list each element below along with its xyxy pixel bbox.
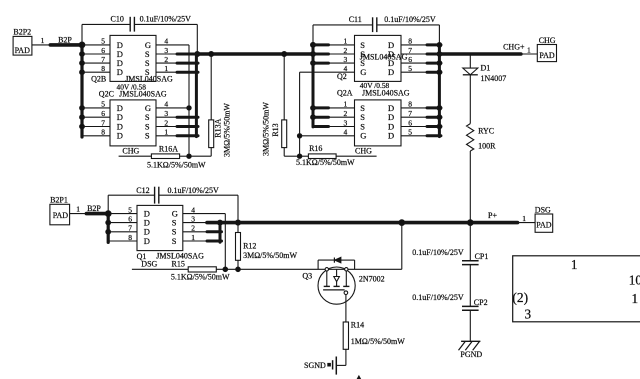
thick S bar y=135.8 xyxy=(177,134,198,137)
wire Q3 to R14 xyxy=(345,295,347,323)
wire CP2 to PGND xyxy=(469,310,471,341)
junction gate net / R16A / R13A xyxy=(187,154,191,158)
svg-text:RYC: RYC xyxy=(478,127,494,136)
svg-text:3: 3 xyxy=(344,118,348,127)
wire Q2C pin 5 stub xyxy=(82,107,110,109)
wire net P+ thick line xyxy=(207,221,518,225)
wire Q3 branch vertical to P+ xyxy=(401,223,403,270)
wire B2P1 pad pin xyxy=(70,213,87,215)
wire D stub right y=117.2 xyxy=(401,116,428,118)
wire net B2P thick feed (bottom) xyxy=(86,212,108,216)
svg-text:6: 6 xyxy=(101,109,105,118)
thick S bar y=63.1 xyxy=(177,62,198,65)
svg-text:8: 8 xyxy=(101,64,105,73)
svg-text:B2P2: B2P2 xyxy=(13,27,31,36)
svg-text:DSG: DSG xyxy=(141,260,157,269)
resistor R13A body xyxy=(210,54,212,120)
svg-text:3MΩ/5%/50mW: 3MΩ/5%/50mW xyxy=(222,103,231,157)
junction S bus row2 xyxy=(311,52,316,57)
wire CHG pad pin xyxy=(521,53,537,55)
svg-text:0.1uF/10%/25V: 0.1uF/10%/25V xyxy=(412,293,464,302)
wire Q2C G pin4 stub xyxy=(156,107,189,109)
junction gate net at Q2C pin4 xyxy=(187,106,191,110)
resistor R12 body xyxy=(237,223,239,233)
svg-text:3: 3 xyxy=(525,307,532,322)
svg-text:7: 7 xyxy=(128,224,132,233)
svg-text:D1: D1 xyxy=(481,64,491,73)
wire CHG net stub (left) xyxy=(119,155,152,157)
wire C12 left rail xyxy=(108,194,154,196)
svg-text:1: 1 xyxy=(41,36,45,45)
svg-text:3: 3 xyxy=(344,55,348,64)
resistor R15 body xyxy=(188,267,216,272)
svg-text:CP2: CP2 xyxy=(474,298,488,307)
wire Q1 gate vertical xyxy=(224,214,226,270)
junction P+ / D1-RYC / CP chain xyxy=(467,220,473,226)
svg-text:1: 1 xyxy=(527,46,531,55)
svg-text:8: 8 xyxy=(128,233,132,242)
svg-text:D: D xyxy=(144,236,150,246)
svg-text:D: D xyxy=(117,67,123,77)
junction B2P bus Q1 pin7 xyxy=(106,229,111,234)
svg-text:5: 5 xyxy=(101,100,105,109)
svg-text:C11: C11 xyxy=(349,15,362,24)
wire B2P pad pin xyxy=(32,44,50,46)
wire Q2C pin 6 stub xyxy=(82,116,110,118)
wire D1 to RYC xyxy=(469,75,471,124)
thick S bar y=126.5 xyxy=(177,125,198,128)
wire Q1 pin 7 stub xyxy=(108,231,137,233)
thick D bus vertical (CHG+ side) xyxy=(438,45,441,137)
wire Q2B pin 8 stub xyxy=(82,71,110,73)
wire C11 drop to D bus (right) xyxy=(438,25,440,45)
wire Q1 pin 5 stub xyxy=(108,213,137,215)
svg-text:5.1KΩ/5%/50mW: 5.1KΩ/5%/50mW xyxy=(171,273,230,282)
svg-text:PAD: PAD xyxy=(15,46,30,55)
junction D bus y=63.1 xyxy=(437,61,442,66)
junction B2P feed (bottom) xyxy=(105,211,111,217)
wire S stub right pair y=63.1 xyxy=(328,62,355,64)
svg-text:5.1KΩ/5%/50mW: 5.1KΩ/5%/50mW xyxy=(296,158,355,167)
thick S bar y=72.2 xyxy=(177,71,198,74)
svg-text:PAD: PAD xyxy=(539,51,554,60)
wire Q2C S stub y=126.5 xyxy=(156,126,178,128)
dual MOSFET Q2A JMSL040SAG (box) xyxy=(355,100,402,146)
wire Q2C S stub y=135.8 xyxy=(156,135,178,137)
svg-text:R13A: R13A xyxy=(213,118,222,137)
wire R16 left lead xyxy=(300,155,309,157)
svg-text:G: G xyxy=(360,131,366,141)
wire Q2B G pin4 stub xyxy=(156,44,189,46)
junction C10/S-bus xyxy=(195,52,200,57)
wire Q2C pin 8 stub xyxy=(82,135,110,137)
svg-text:B2P: B2P xyxy=(87,204,101,213)
svg-text:B2P: B2P xyxy=(58,35,72,44)
Q3 drain stub xyxy=(326,269,328,286)
junction B2P bus Q2C pin6 xyxy=(80,115,85,120)
svg-text:7: 7 xyxy=(101,55,105,64)
svg-text:2: 2 xyxy=(344,109,348,118)
svg-text:1: 1 xyxy=(344,37,348,46)
Q3 source stub xyxy=(345,269,347,286)
wire C10 drop to B2P bus xyxy=(81,24,83,45)
svg-text:10: 10 xyxy=(629,273,640,288)
thick S bus vertical (right pair) xyxy=(312,45,315,127)
wire S stub right pair y=44.9 xyxy=(328,44,355,46)
thick D bar y=44.9 xyxy=(427,43,441,46)
svg-text:2: 2 xyxy=(344,46,348,55)
Q3 protection diode loop xyxy=(317,260,319,269)
wire gate net vertical (Q2B/Q2C gates) xyxy=(188,45,190,156)
svg-text:0.1uF/10%/25V: 0.1uF/10%/25V xyxy=(412,248,464,257)
resistor R13 body xyxy=(283,54,285,120)
svg-text:D: D xyxy=(117,131,123,141)
svg-text:PAD: PAD xyxy=(536,220,551,229)
wire Q2B pin 7 stub xyxy=(82,62,110,64)
thick S bus vertical Q1 xyxy=(219,222,222,242)
wire Q1 pin 8 stub xyxy=(108,240,137,242)
wire net CHG+ thick xyxy=(439,52,521,56)
svg-text:100R: 100R xyxy=(478,142,496,151)
svg-text:PAD: PAD xyxy=(53,211,68,220)
svg-text:Q2C: Q2C xyxy=(99,90,114,99)
svg-text:7: 7 xyxy=(101,118,105,127)
junction R12 / DSG wire xyxy=(236,267,241,272)
svg-text:CHG: CHG xyxy=(539,36,556,45)
svg-text:S: S xyxy=(172,236,177,246)
svg-text:R16A: R16A xyxy=(159,144,178,153)
wire C11 right rail xyxy=(377,24,440,26)
Q3 loop diode (points left) xyxy=(333,258,335,263)
thick S bar right pair y=63.1 xyxy=(313,62,329,65)
svg-text:1: 1 xyxy=(344,100,348,109)
Q3 gate bar xyxy=(323,289,345,291)
svg-text:G: G xyxy=(360,67,366,77)
wire Q1 S stub y=231.8 xyxy=(183,231,208,233)
wire R12 bottom lead xyxy=(237,260,239,269)
thick D bar y=54.0 xyxy=(427,53,441,56)
svg-text:C12: C12 xyxy=(136,186,149,195)
svg-text:3: 3 xyxy=(191,214,195,223)
svg-text:5: 5 xyxy=(128,205,132,214)
resistor R16A body xyxy=(151,154,179,159)
clipped mark at bottom edge xyxy=(357,376,360,379)
port B2P1 PAD symbol xyxy=(50,204,70,225)
junction gate net / R16 / R13 xyxy=(297,154,301,158)
svg-text:PGND: PGND xyxy=(460,350,482,359)
svg-text:DSG: DSG xyxy=(535,205,551,214)
svg-text:0.1uF/10%/25V: 0.1uF/10%/25V xyxy=(168,186,220,195)
svg-text:JMSL040SAG: JMSL040SAG xyxy=(362,89,410,98)
wire C12 drop to B2P bus (bottom) xyxy=(107,195,109,213)
wire DSG net stub xyxy=(132,268,188,270)
svg-text:6: 6 xyxy=(128,214,132,223)
thick S bar y=54.0 xyxy=(177,53,198,56)
svg-text:4: 4 xyxy=(191,205,195,214)
wire gate net vertical (Q2/Q2A gates) xyxy=(299,72,301,156)
wire D stub right y=135.8 xyxy=(401,135,428,137)
junction B2P bus row8 xyxy=(80,70,85,75)
resistor RYC (zigzag) xyxy=(467,124,474,151)
svg-text:(2): (2) xyxy=(512,290,528,305)
svg-text:0.1uF/10%/25V: 0.1uF/10%/25V xyxy=(140,15,192,24)
thick S bar Q1 y=241.0 xyxy=(207,240,222,243)
wire Q2 G pin4 line xyxy=(300,71,355,73)
wire Q1 S stub y=222.6 xyxy=(183,222,208,224)
wire Q2A G pin4 line xyxy=(300,135,355,137)
wire S stub right pair y=126.5 xyxy=(328,126,355,128)
wire Q2B S stub y=63.1 xyxy=(156,62,178,64)
wire Q1 G pin4 stub xyxy=(183,213,226,215)
Q3 gate terminal circle xyxy=(344,291,348,295)
svg-text:3MΩ/5%/50mW: 3MΩ/5%/50mW xyxy=(243,251,297,260)
wire R13A bottom lead xyxy=(210,148,212,157)
thick S net horizontal bus to right pair xyxy=(196,52,313,55)
svg-text:CP1: CP1 xyxy=(475,252,489,261)
junction Q1 gate / DSG wire xyxy=(223,267,228,272)
dual MOSFET U=Q2B JMSL040SAG (box, pins 5-8 D left, 4=G 3,2,1=S right) xyxy=(110,35,156,81)
svg-text:CHG: CHG xyxy=(355,146,372,155)
thick S bar right pair y=117.2 xyxy=(313,116,329,119)
wire D stub right y=126.5 xyxy=(401,126,428,128)
svg-text:1N4007: 1N4007 xyxy=(481,74,507,83)
thick D bar y=107.9 xyxy=(427,106,441,109)
thick S bar right pair y=44.9 xyxy=(313,43,329,46)
dual MOSFET Q2 JMSL040SAG (box, pins 1-3 S,4 G left; 8-5 D right) xyxy=(355,35,402,81)
diode D1 1N4007 xyxy=(463,68,478,75)
power port SGND xyxy=(335,357,337,375)
connector box (clipped at right edge) xyxy=(513,256,640,322)
wire Q2B pin 5 stub xyxy=(82,44,110,46)
svg-text:2N7002: 2N7002 xyxy=(359,274,385,283)
svg-text:8: 8 xyxy=(101,128,105,137)
junction D bus y=107.9 xyxy=(437,106,442,111)
wire CHG+ to D1 xyxy=(469,54,471,68)
dual MOSFET Q2C JMSL040SAG (box) xyxy=(110,100,156,146)
capacitor C12 xyxy=(154,187,156,204)
thick D bar y=135.8 xyxy=(427,134,441,137)
svg-text:D: D xyxy=(388,131,394,141)
svg-text:1: 1 xyxy=(76,205,80,214)
resistor R16 body xyxy=(308,154,336,159)
thick D bar y=117.2 xyxy=(427,116,441,119)
junction D bus y=72.2 xyxy=(437,70,442,75)
wire C10 drop to S bus xyxy=(196,24,198,54)
svg-text:CHG: CHG xyxy=(122,146,139,155)
Q3 terminal blob source xyxy=(345,268,348,271)
junction P+ / Q3 branch xyxy=(399,220,405,226)
wire R14 to SGND xyxy=(345,349,347,365)
wire Q2C S stub y=117.2 xyxy=(156,116,178,118)
wire Q1 S stub y=241.0 xyxy=(183,240,208,242)
svg-text:1: 1 xyxy=(632,291,639,306)
svg-text:B2P1: B2P1 xyxy=(50,196,68,205)
capacitor CP2 xyxy=(462,305,479,307)
svg-text:R15: R15 xyxy=(172,260,185,269)
svg-text:D: D xyxy=(388,67,394,77)
wire D stub right y=44.9 xyxy=(401,44,428,46)
capacitor C11 xyxy=(372,17,374,32)
svg-text:Q2: Q2 xyxy=(337,72,347,81)
junction S bus / R13A xyxy=(209,52,214,57)
wire Q1 pin 6 stub xyxy=(108,222,137,224)
wire B2P bus vertical thick (bottom) xyxy=(107,214,110,243)
ground PGND symbol xyxy=(461,340,480,342)
junction B2P feed xyxy=(79,42,85,48)
svg-text:R14: R14 xyxy=(351,321,364,330)
junction S bus / R13 xyxy=(282,52,287,57)
resistor R14 body xyxy=(343,322,348,349)
wire P+ to CP1 xyxy=(469,223,471,261)
junction P+ / S bus xyxy=(218,220,223,225)
svg-text:C10: C10 xyxy=(111,15,124,24)
wire CP1 to CP2 xyxy=(469,265,471,307)
junction B2P bus Q2C pin5 xyxy=(80,106,85,111)
wire R15 right lead to Q3 xyxy=(216,268,401,270)
junction P+ / C12 / R12 xyxy=(235,220,240,225)
thick S bar y=117.2 xyxy=(177,116,198,119)
junction B2P bus row7 xyxy=(80,61,85,66)
svg-text:CHG+: CHG+ xyxy=(503,42,525,51)
port DSG PAD symbol xyxy=(535,214,553,232)
wire Q2C pin 7 stub xyxy=(82,126,110,128)
svg-text:SGND: SGND xyxy=(304,361,326,370)
wire D stub right y=72.2 xyxy=(401,71,428,73)
svg-text:0.1uF/10%/25V: 0.1uF/10%/25V xyxy=(384,15,436,24)
thick S bar right pair y=107.9 xyxy=(313,106,329,109)
svg-text:6: 6 xyxy=(101,46,105,55)
thick S bar Q1 y=231.8 xyxy=(207,230,222,233)
transistor Q3 body circle xyxy=(318,267,355,304)
wire Q2B pin 6 stub xyxy=(82,53,110,55)
wire B2P bus vertical thick xyxy=(80,45,83,137)
thick D bar y=72.2 xyxy=(427,71,441,74)
junction B2P bus Q1 pin6 xyxy=(106,220,111,225)
svg-text:Q2A: Q2A xyxy=(337,89,353,98)
wire net B2P thick feed xyxy=(50,43,82,47)
wire C12 drop to P+ line xyxy=(237,195,239,222)
wire R16A right lead xyxy=(180,155,189,157)
junction D bus y=126.5 xyxy=(437,124,442,129)
svg-text:1MΩ/5%/50mW: 1MΩ/5%/50mW xyxy=(351,337,405,346)
wire D stub right y=107.9 xyxy=(401,107,428,109)
wire C10 right rail xyxy=(134,23,197,25)
thick D bar y=63.1 xyxy=(427,62,441,65)
wire C12 right rail xyxy=(159,194,238,196)
junction D bus y=44.9 xyxy=(437,43,442,48)
wire Q2B S stub y=72.2 xyxy=(156,71,178,73)
svg-text:1: 1 xyxy=(571,257,578,272)
svg-text:JMSL040SAG: JMSL040SAG xyxy=(360,53,408,62)
wire Q2B S stub y=54.0 xyxy=(156,53,178,55)
svg-text:4: 4 xyxy=(344,128,348,137)
wire DSG pad pin xyxy=(518,222,536,224)
svg-text:5.1KΩ/5%/50mW: 5.1KΩ/5%/50mW xyxy=(147,161,206,170)
port B2P2 PAD symbol xyxy=(13,36,32,55)
junction S bus top / C11 xyxy=(311,42,316,47)
svg-text:R16: R16 xyxy=(309,144,322,153)
svg-text:3MΩ/5%/50mW: 3MΩ/5%/50mW xyxy=(262,102,271,156)
junction S bus Q2A pin2 xyxy=(311,115,316,120)
junction gate net at Q2A pin4 xyxy=(297,134,301,138)
junction S bus Q2A pin1 xyxy=(311,106,316,111)
junction D bus y=117.2 xyxy=(437,115,442,120)
svg-text:Q2B: Q2B xyxy=(91,74,106,83)
svg-text:R13: R13 xyxy=(271,123,280,136)
wire S stub right pair y=117.2 xyxy=(328,116,355,118)
svg-text:P+: P+ xyxy=(488,211,497,220)
thick S bus vertical (left pair) xyxy=(195,53,198,136)
port CHG PAD symbol xyxy=(537,45,556,62)
wire R16 right lead / CHG net xyxy=(336,155,377,157)
svg-text:JMSL040SAG: JMSL040SAG xyxy=(119,90,167,99)
Q3 terminal blob drain xyxy=(325,268,328,271)
junction D bus y=54.0 xyxy=(437,52,442,57)
wire S stub right pair y=54.0 xyxy=(328,53,355,55)
capacitor C10 xyxy=(129,17,131,32)
svg-text:5: 5 xyxy=(101,37,105,46)
svg-text:1: 1 xyxy=(522,214,526,223)
wire R13 bottom lead xyxy=(283,148,285,157)
wire S stub right pair y=107.9 xyxy=(328,107,355,109)
thick D bar y=126.5 xyxy=(427,125,441,128)
svg-text:R12: R12 xyxy=(243,242,256,251)
svg-text:Q3: Q3 xyxy=(302,272,312,281)
thick S bar right pair y=126.5 xyxy=(313,125,329,128)
wire C11 left rail xyxy=(313,24,373,26)
dual MOSFET Q1 JMSL040SAG (box) xyxy=(137,205,183,250)
capacitor CP1 xyxy=(462,260,479,262)
junction B2P bus row6 xyxy=(80,52,85,57)
wire C11 drop to S bus (left) xyxy=(312,25,314,45)
wire RYC to P+ line xyxy=(469,151,471,223)
wire C10 left rail xyxy=(82,23,130,25)
Q3 body arrow (substrate diode) xyxy=(336,269,338,276)
wire D stub right y=54.0 xyxy=(401,53,428,55)
junction S bus row3 xyxy=(311,61,316,66)
junction B2P bus Q2C pin7 xyxy=(80,124,85,129)
wire D stub right y=63.1 xyxy=(401,62,428,64)
thick S bar right pair y=54.0 xyxy=(313,53,329,56)
svg-text:S: S xyxy=(145,131,150,141)
